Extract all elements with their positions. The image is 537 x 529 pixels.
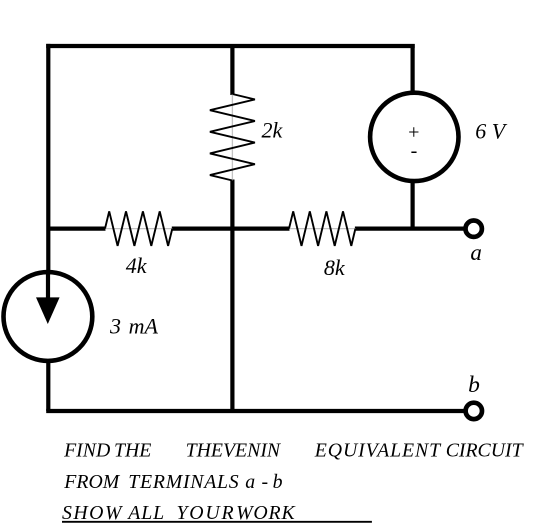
svg-text:b: b [273, 471, 283, 493]
wire left upper [46, 44, 50, 272]
resistor R 4k zigzag [105, 211, 172, 246]
svg-text:3: 3 [109, 314, 121, 339]
terminal a circle [466, 221, 482, 237]
wire bottom [46, 409, 464, 413]
wire middle horizontal center [172, 227, 290, 231]
wire right vertical lower [411, 183, 415, 229]
resistor R 8k zigzag [289, 211, 355, 246]
svg-text:mA: mA [129, 314, 159, 339]
current source I1 circle [4, 272, 93, 361]
svg-text:FROM: FROM [63, 471, 120, 493]
wire middle vertical lower [230, 180, 234, 412]
wire left lower [46, 361, 50, 411]
svg-text:2k: 2k [262, 117, 284, 142]
svg-text:a: a [470, 240, 482, 265]
resistor R 2k zigzag [210, 94, 255, 181]
svg-text:6 V: 6 V [475, 119, 508, 144]
wire right vertical upper [411, 44, 415, 92]
wire middle vertical upper [230, 44, 234, 95]
svg-text:b: b [468, 372, 480, 398]
terminal b circle [466, 403, 482, 419]
wire middle horizontal left [48, 227, 105, 231]
svg-text:4k: 4k [126, 253, 148, 278]
svg-text:THEVENIN: THEVENIN [186, 440, 282, 462]
voltage source V1 circle [370, 93, 458, 181]
thin lead through resistor 4k [105, 228, 172, 230]
svg-text:-: - [411, 140, 418, 162]
svg-text:TERMINALS: TERMINALS [128, 471, 239, 493]
svg-text:SHOW: SHOW [62, 502, 123, 524]
svg-text:FIND: FIND [63, 440, 110, 462]
thin lead through resistor 2k [231, 94, 233, 181]
wire middle horizontal right [355, 227, 464, 231]
thin lead through resistor 8k [289, 228, 355, 230]
svg-text:-: - [262, 471, 269, 493]
underline [62, 521, 372, 523]
svg-text:a: a [245, 471, 255, 493]
svg-text:8k: 8k [324, 255, 346, 280]
svg-text:ALL: ALL [126, 502, 165, 524]
current source arrow head [36, 297, 60, 324]
current source arrow stem [46, 272, 50, 300]
svg-text:THE: THE [114, 440, 151, 462]
svg-text:WORK: WORK [236, 502, 296, 524]
svg-text:EQUIVALENT: EQUIVALENT [314, 440, 442, 462]
svg-text:CIRCUIT: CIRCUIT [446, 440, 525, 462]
svg-text:YOUR: YOUR [177, 502, 236, 524]
wire top [46, 44, 415, 48]
